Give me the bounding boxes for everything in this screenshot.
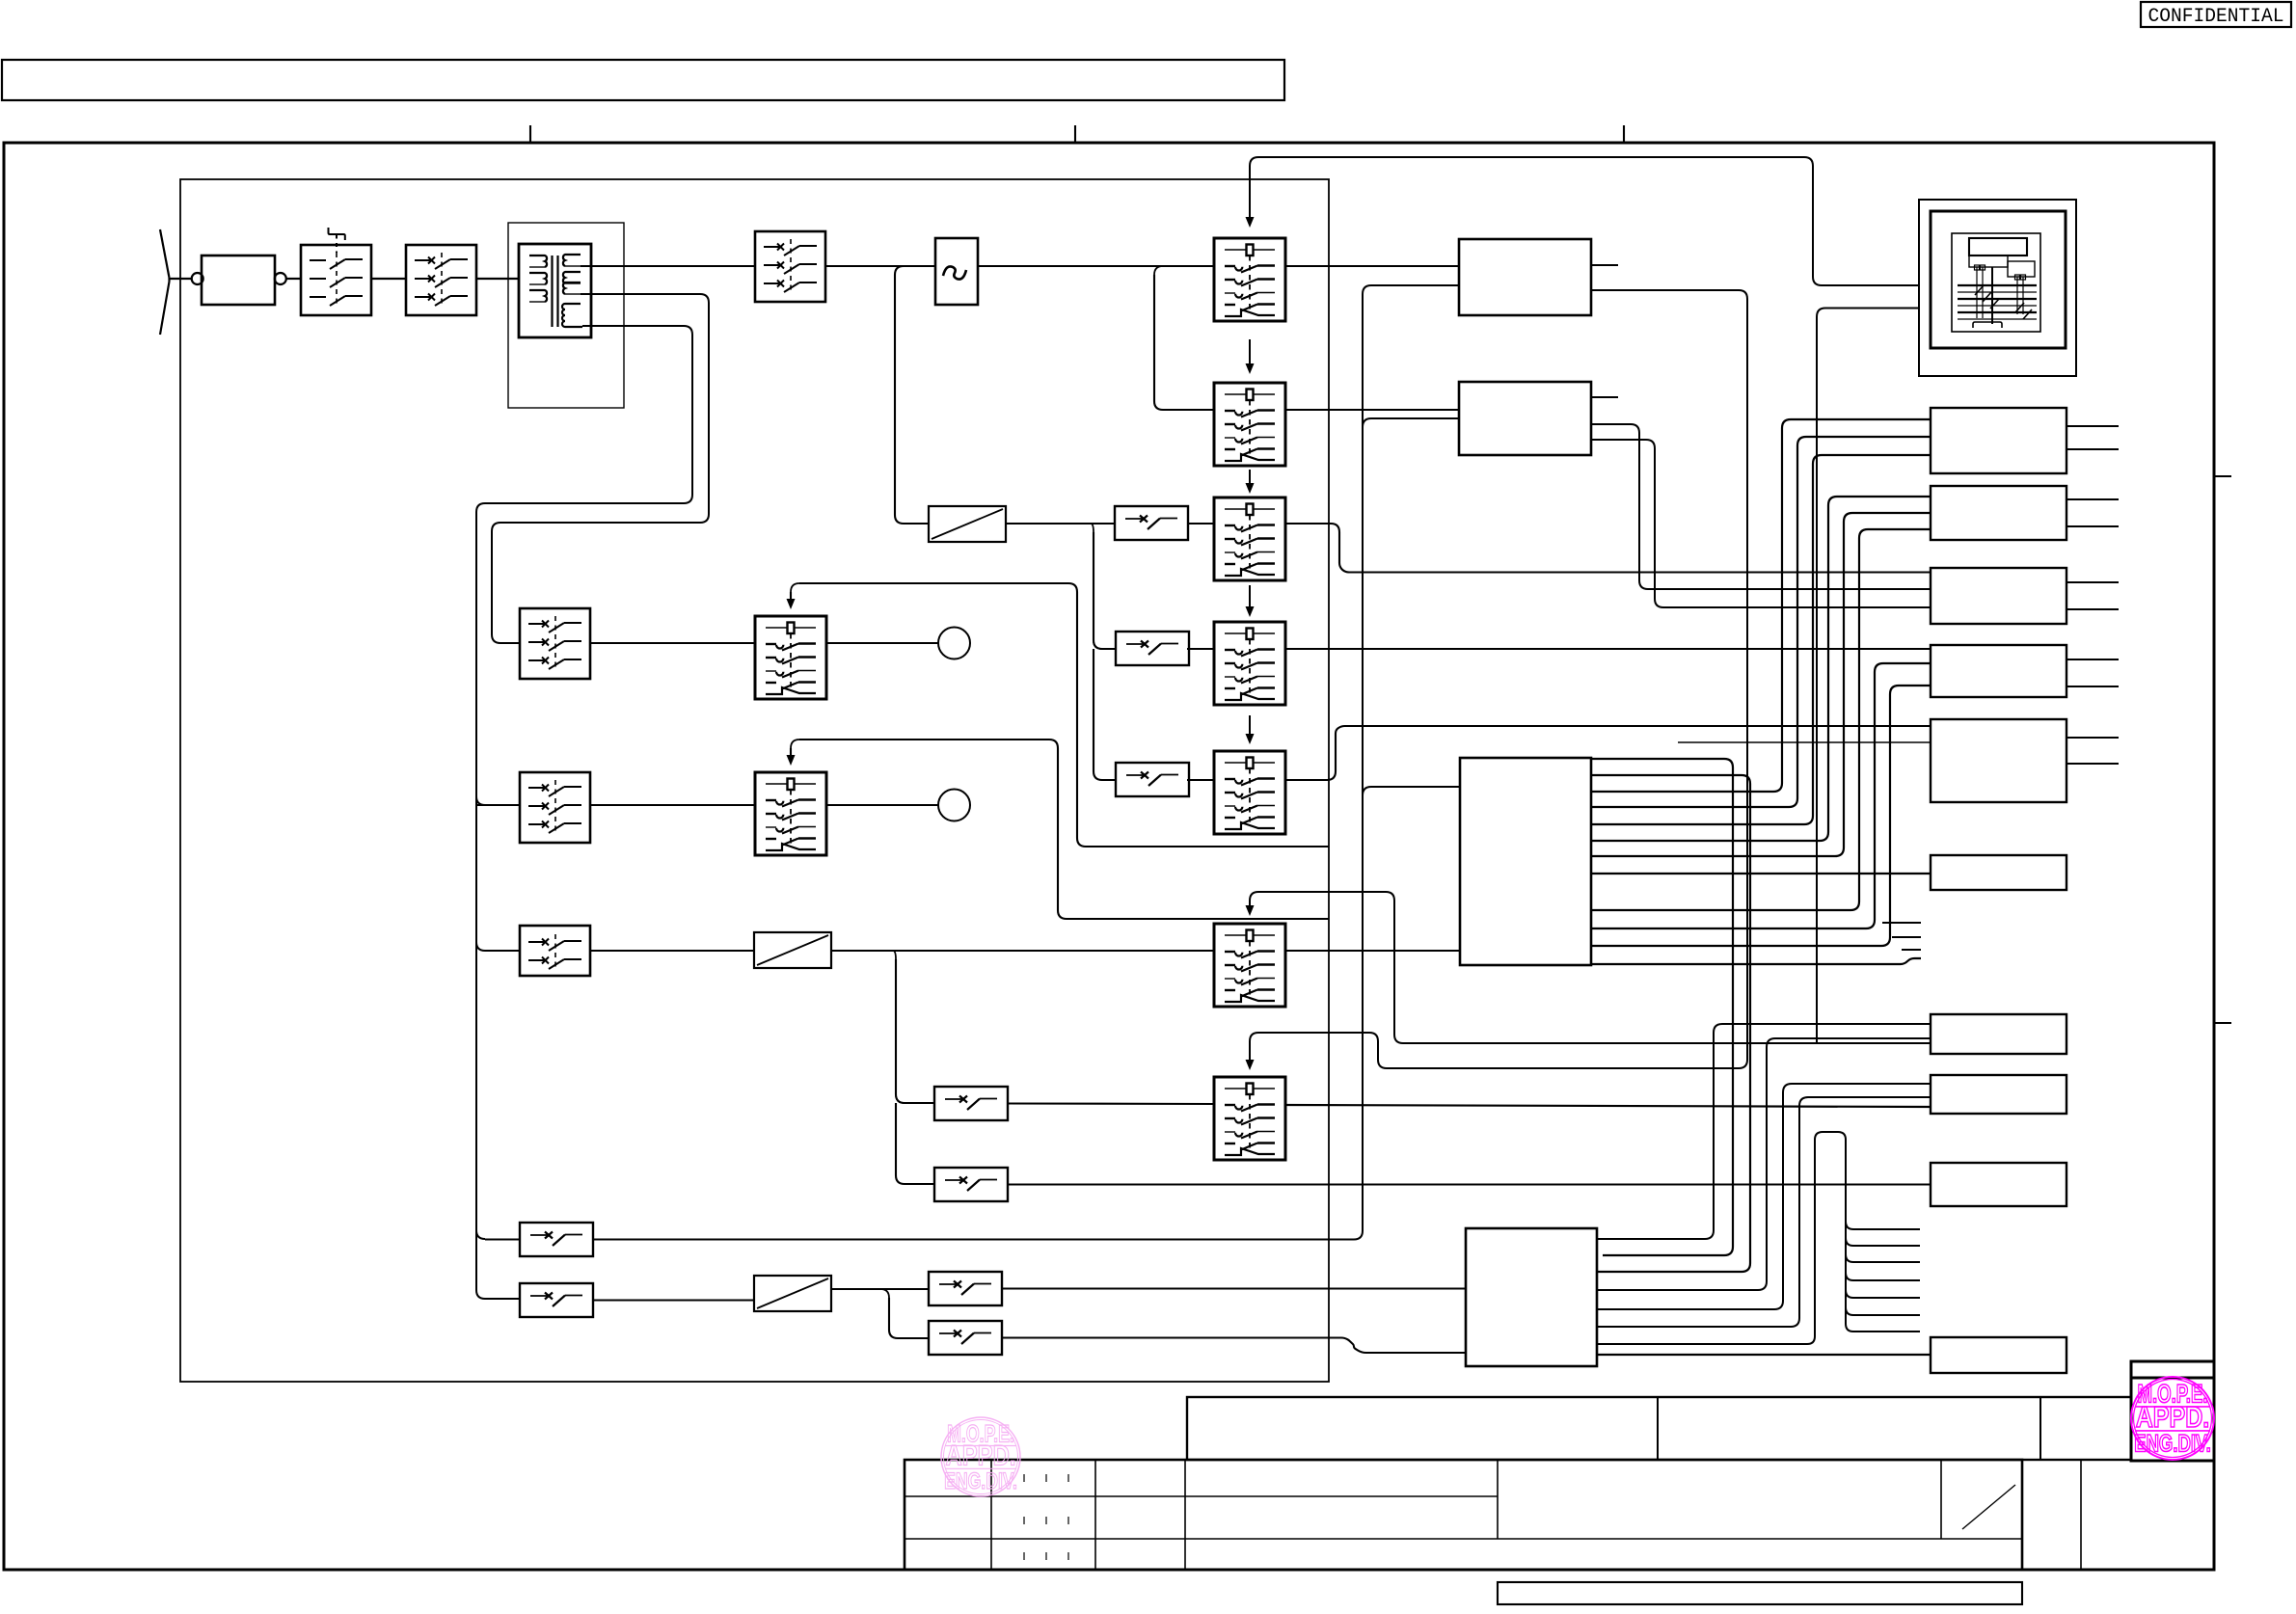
arrow CB1 to CB2 (1246, 339, 1255, 374)
R5 second input wire (1678, 741, 1931, 743)
approval stamp cell (2131, 1361, 2214, 1461)
K3-K4 loop wire 1 (1591, 759, 1733, 1255)
switchgear CB3 (1214, 498, 1285, 580)
wire CB3 out to I/O box R3 (1285, 524, 1931, 573)
motor switchgear M1 (755, 616, 826, 699)
I/O box R5 (1931, 719, 2066, 802)
MCC breaker row1 (520, 608, 590, 679)
rectifier REC1 (929, 506, 1006, 542)
wire rowB to rectifier REC3 (593, 1299, 754, 1301)
DC feeder breaker F5 (934, 1168, 1008, 1201)
I/O box R2 (1931, 486, 2066, 540)
K3 wire to R6 (1591, 873, 1931, 874)
revision strip box (1498, 1582, 2022, 1604)
fuse-switch F2 (1116, 632, 1189, 665)
spare terminal stubs (1882, 923, 1921, 950)
I/O box R4 (1931, 645, 2066, 697)
MCC breaker row2 (520, 772, 590, 843)
fuse-switch F1 (1115, 506, 1188, 540)
bus A branch to feeder row A (476, 1230, 520, 1240)
shaft coupling circle left (192, 273, 203, 284)
wire F2 to CB4 (1187, 648, 1214, 650)
battery breaker B2 (929, 1321, 1002, 1355)
I/O box R8 (1931, 1075, 2066, 1114)
title block slash cell (1962, 1485, 2015, 1529)
turbine shaft (170, 278, 192, 280)
switchgear CB2 (1214, 383, 1285, 466)
I/O box R1 (1931, 408, 2066, 473)
wire row2 to motor switchgear M2 (590, 804, 755, 806)
K4 output up-loop 2 (1591, 775, 1750, 1272)
wire rowA to control bus (593, 1239, 1354, 1241)
switchgear CB7 (1214, 1077, 1285, 1160)
generator breaker Q2 (406, 245, 476, 315)
trip wire M2 (787, 740, 1330, 919)
DC feeder breaker F4 (934, 1087, 1008, 1120)
motor M2 circle (938, 790, 970, 821)
frame fold tick top 2 (1074, 125, 1076, 143)
K3 wire to R2 input 3 (1591, 529, 1931, 910)
motor M1 circle (938, 628, 970, 659)
earthing tap above Q1 (329, 228, 345, 253)
I/O right stub wires (2066, 426, 2119, 764)
turbine controller K3 (1460, 758, 1591, 965)
wire row3 to rectifier REC2 (590, 950, 754, 952)
wire CB4 long output to I/O box R4 (1285, 648, 1931, 650)
title block header box (1187, 1397, 2131, 1460)
fuse-switch F3 (1116, 763, 1189, 796)
I/O box R10 (1931, 1337, 2066, 1373)
frame fold tick top 3 (1623, 125, 1625, 143)
transformer T1 compartment (508, 223, 624, 408)
R10 input wire (1597, 1354, 1931, 1356)
wire CB2 to relay K2 (1285, 409, 1459, 411)
K3 wire to R4 input 2 (1591, 663, 1931, 928)
switchgear CB1 (1214, 238, 1285, 321)
relay K2 right stub (1591, 396, 1618, 398)
wire F3 to CB5 (1187, 779, 1214, 781)
checker stamp (magenta, faint) (941, 1417, 1020, 1496)
wire F5 long to I/O box R9 (1008, 1183, 1931, 1185)
shaft coupling circle right (275, 273, 286, 284)
protection relay K2 (1459, 382, 1591, 455)
K3 wire to R2 input 1 (1591, 497, 1931, 841)
wire generator to disconnect (286, 278, 301, 280)
I/O box R6 (1931, 855, 2066, 890)
frame fold tick right 2 (2214, 1022, 2231, 1024)
svg-text:ENG.DIV.: ENG.DIV. (2134, 1430, 2211, 1457)
incoming feedback wire to CB1 (1246, 157, 1920, 285)
branch to switchgear CB2 (1154, 266, 1214, 410)
wire CB5 output riser to I/O box R5 (1285, 726, 1931, 780)
wire Q3 to converter (825, 265, 935, 267)
wire B2 to controller K4 (1002, 1338, 1466, 1354)
svg-text:APPD.: APPD. (946, 1440, 1016, 1472)
wire B1 to controller K4 (1002, 1287, 1466, 1289)
K2 wire to R3 input 2 (1591, 424, 1931, 589)
bus A branch to MCC row3 (476, 942, 520, 951)
wire F4 to CB7 (1008, 1102, 1214, 1105)
surge arrester internals (1958, 238, 2037, 328)
K2 wire to R3 input 3 (1591, 440, 1931, 607)
control bus riser (1354, 285, 1459, 1240)
protection relay K1 (1459, 239, 1591, 315)
wire converter to switchgear bus (978, 265, 1214, 267)
wire F1 to CB3 (1188, 523, 1214, 525)
R8 input wires (1597, 1084, 1931, 1327)
generator G1 box (202, 256, 275, 305)
wire Q1 to breaker Q2 (371, 278, 406, 280)
surge arrester cabinet outer (1919, 200, 2076, 376)
surge arrester cabinet inner (1931, 211, 2066, 348)
wire Q2 to transformer T1 (476, 278, 519, 280)
wire M2 to motor2 (826, 804, 938, 806)
motor switchgear M2 (755, 772, 826, 855)
svg-text:ENG.DIV.: ENG.DIV. (944, 1468, 1017, 1494)
drop junction to DC feeders (893, 951, 934, 1184)
trip loop CB6 (1246, 309, 1931, 1044)
wire REC3 to battery breaker B1 (831, 1288, 929, 1290)
I/O box R9 (1931, 1163, 2066, 1206)
relay K1 right stub (1591, 264, 1618, 266)
MCC breaker row3 (2-pole) (520, 926, 590, 976)
switchgear CB6 (1214, 924, 1285, 1007)
I/O box R3 (1931, 568, 2066, 624)
CONFIDENTIAL stamp box (2141, 2, 2291, 28)
K3 spare stub (1591, 958, 1921, 964)
R7 input wires (1597, 1024, 1931, 1290)
switchgear CB4 (1214, 622, 1285, 705)
frame fold tick right 1 (2214, 475, 2231, 477)
wire rectifier to fuse-switch F1 (1006, 523, 1115, 525)
wire M1 to motor1 (826, 642, 938, 644)
trip wire M1 (787, 583, 1330, 847)
rectifier REC3 (754, 1276, 831, 1311)
svg-text:APPD.: APPD. (2136, 1400, 2210, 1434)
approval stamp (magenta) (2131, 1377, 2214, 1460)
control bus branch to relay K2 (1363, 418, 1459, 427)
rectifier REC2 (754, 932, 831, 968)
arrow CB2 to CB3 (1246, 470, 1255, 494)
wind turbine rotor blades (160, 229, 170, 335)
K3 wire to R1 input 1 (1591, 419, 1931, 792)
arrow CB4 to CB5 (1246, 715, 1255, 744)
trip loop CB7 (1246, 290, 1748, 1070)
K4 spare stub fan (1597, 1132, 1920, 1344)
surge arrester module frame (1952, 233, 2040, 332)
grid controller K4 (1466, 1228, 1597, 1366)
wire row1 to motor switchgear M1 (590, 642, 755, 644)
title bar (top) (2, 60, 1284, 100)
3-pole load switch Q3 (755, 231, 825, 302)
wire T1 LV output A (to aux bus A) (476, 326, 692, 1299)
svg-text:CONFIDENTIAL: CONFIDENTIAL (2148, 6, 2284, 28)
aux breaker row A (520, 1223, 593, 1256)
generator disconnect switch Q1 (301, 245, 371, 315)
frequency converter U1 (935, 238, 978, 305)
bus A branch to MCC row2 (476, 796, 520, 805)
turbine enclosure boundary (180, 179, 1329, 1382)
wire T1 HV output (581, 265, 755, 267)
title block table (905, 1460, 2081, 1570)
wire REC2 to CB6 with junction (831, 950, 1214, 952)
K3 wire to R1 input 3 (1591, 455, 1931, 824)
aux breaker row B (520, 1283, 593, 1317)
transformer T1 windings (519, 244, 591, 337)
K3 wire to R4 input 3 (1591, 686, 1931, 946)
wire CB6 to controller K3 (1285, 950, 1460, 952)
K3 wire to R2 input 2 (1591, 513, 1931, 856)
K3 wire to R1 input 2 (1591, 437, 1931, 807)
frame fold tick top 1 (529, 125, 531, 143)
battery breaker B1 (929, 1272, 1002, 1305)
jog to battery breaker B2 (880, 1289, 929, 1338)
drop to fuse-switches F2 F3 (1091, 524, 1116, 780)
switchgear CB5 (1214, 751, 1285, 834)
junction drop to rectifier (895, 266, 929, 524)
arrow CB3 to CB4 (1246, 585, 1255, 617)
control bus branch to relay K3 (1363, 787, 1460, 795)
wire T1 LV output B (to MCC row1) (492, 294, 709, 643)
I/O box R7 (1931, 1014, 2066, 1054)
wire CB7 output to R8 (1285, 1105, 1931, 1107)
wire CB1 to relay K1 (1285, 265, 1459, 267)
